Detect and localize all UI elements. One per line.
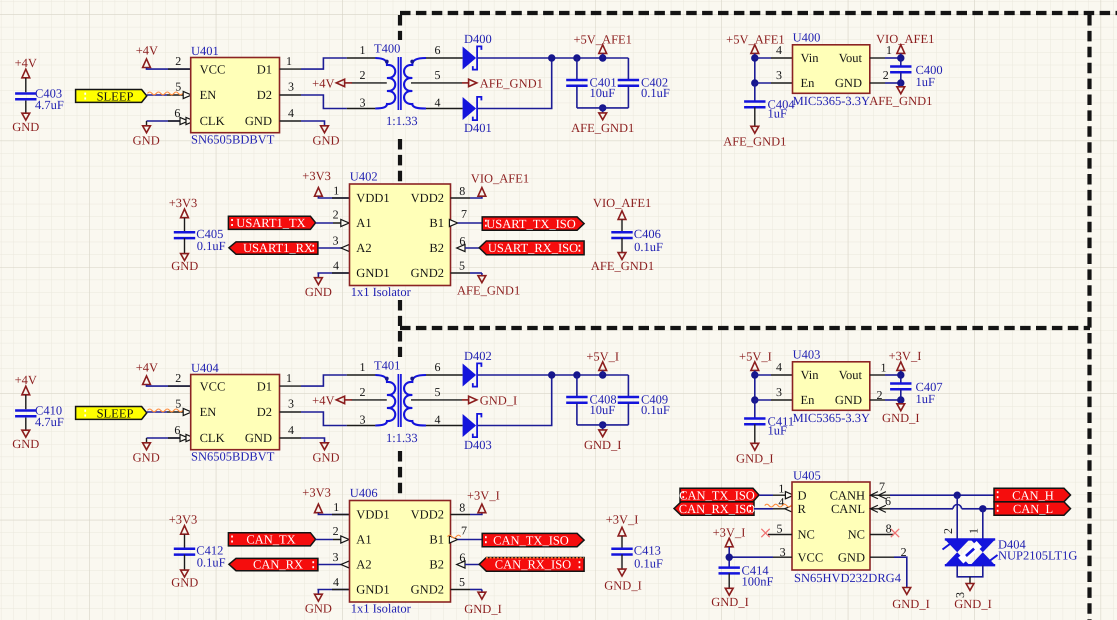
svg-text:1uF: 1uF [768,424,788,438]
svg-text:VIO_AFE1: VIO_AFE1 [471,171,529,185]
svg-text:A2: A2 [356,558,371,572]
svg-text:U402: U402 [350,169,378,183]
junction dots rail [548,371,555,378]
port CAN_TX_ISO [482,533,584,546]
svg-text:4: 4 [435,96,441,110]
wire D404 common to GND_I [957,565,983,577]
svg-text:GND: GND [838,550,865,564]
svg-text:8: 8 [459,184,465,198]
ERC orange mark on CAN_RX_ISO port [486,557,584,559]
svg-text:4: 4 [776,360,782,374]
svg-text:1x1 Isolator: 1x1 Isolator [351,285,412,299]
svg-text:GND: GND [835,76,862,90]
svg-text:2: 2 [883,68,889,82]
svg-text:GND_I: GND_I [711,595,749,609]
ground GND (U401 CLK) [147,120,191,122]
pin B1 arrow and wire to USART_TX_ISO [449,219,457,226]
svg-text:1: 1 [333,183,339,197]
svg-text:NC: NC [798,528,815,542]
svg-text:GND: GND [171,259,198,273]
wire SLEEP to U404 EN [147,411,167,413]
capacitor C400 [900,58,902,67]
power +3V_I (U406 VDD2 pin 8) [451,514,471,516]
wire USART1_RX to A2 [318,247,341,249]
IC U401 body [191,58,280,133]
svg-text:MIC5365-3.3Y: MIC5365-3.3Y [793,94,870,108]
svg-text:GND: GND [12,437,39,451]
ground GND (U401 pin4) [280,120,302,122]
T401 pin stubs [347,374,376,376]
wire CANL pin 6 to CAN_L [870,508,890,510]
wire Vin pin 4 [755,57,771,59]
svg-text:MIC5365-3.3Y: MIC5365-3.3Y [793,411,870,425]
svg-text:GND_I: GND_I [584,438,622,452]
svg-text:1: 1 [360,360,366,374]
svg-text:GND2: GND2 [411,583,444,597]
svg-text:D400: D400 [464,32,492,46]
pin EN input arrow [183,91,191,98]
svg-text:SN6505BDBVT: SN6505BDBVT [191,132,275,146]
SECTION-ROW4 [169,485,663,616]
svg-text:T401: T401 [374,358,400,372]
pin EN input arrow [183,408,191,415]
svg-text:0.1uF: 0.1uF [197,239,226,253]
svg-text:A1: A1 [356,533,371,547]
svg-text:USART1_TX: USART1_TX [236,216,305,230]
ground GND symbol (left rail) [22,113,30,120]
svg-text:CAN_TX_ISO: CAN_TX_ISO [679,488,755,502]
svg-text:B2: B2 [429,558,444,572]
svg-text:3: 3 [333,550,339,564]
svg-text:2: 2 [360,385,366,399]
svg-text:VCC: VCC [200,379,226,393]
svg-text:GND: GND [12,120,39,134]
wire Vout pin 1 [870,374,885,376]
ground GND (U404 CLK) [147,437,191,439]
ground GND_I symbol (U405 pin2) [903,588,911,595]
svg-text:1: 1 [967,528,981,534]
wire U401 D1 to T400 pin1 [280,68,302,70]
svg-text:5: 5 [435,385,441,399]
ground GND (U404 pin4) [280,437,302,439]
ground AFE_GND1 symbol (C404) [751,126,759,133]
svg-text:En: En [801,393,816,407]
svg-text:GND: GND [171,576,198,590]
svg-text:VDD2: VDD2 [411,191,444,205]
svg-text:+3V3: +3V3 [302,169,331,183]
wire D402 cathode to +5V_I rail [478,374,628,376]
junction dot CANH [954,492,961,499]
isolator U402 body [350,184,451,286]
svg-text:VDD2: VDD2 [411,508,444,522]
regulator U400 body [793,45,870,94]
svg-text:2: 2 [175,54,181,68]
pin CLK clock arrows [180,117,188,124]
svg-text:D403: D403 [464,438,492,452]
svg-text:NC: NC [848,528,865,542]
svg-text:1: 1 [881,360,887,374]
svg-text:CAN_TX_ISO: CAN_TX_ISO [493,533,569,547]
junction dots rail [548,54,555,61]
svg-text:VDD1: VDD1 [356,508,389,522]
svg-text:SLEEP: SLEEP [97,406,134,420]
svg-text:Vin: Vin [801,51,820,65]
svg-text:B1: B1 [429,533,444,547]
svg-text:A1: A1 [356,216,371,230]
svg-text:4: 4 [333,258,339,272]
ground AFE_GND1 symbol (rail) [602,108,604,113]
svg-text:CANL: CANL [831,502,865,516]
svg-text:AFE_GND1: AFE_GND1 [869,94,932,108]
svg-text:AFE_GND1: AFE_GND1 [457,283,520,297]
dashed partition border vertical x400 segment b [398,139,402,182]
svg-text:AFE_GND1: AFE_GND1 [723,135,786,149]
svg-text:+3V_I: +3V_I [606,512,639,526]
svg-text:+3V_I: +3V_I [467,488,500,502]
ground AFE_GND1 (U402 GND2 pin 5) [451,272,471,274]
wire D403 cathode up to rail [478,375,552,426]
svg-text:GND: GND [312,133,339,147]
capacitor C407 [900,375,902,384]
svg-text:D2: D2 [257,88,272,102]
wire D401 cathode up to rail [478,58,552,109]
svg-text:CAN_H: CAN_H [1012,488,1054,502]
svg-text:0.1uF: 0.1uF [641,403,670,417]
svg-text:D: D [798,488,807,502]
ground GND_I symbol (C407) [900,400,902,404]
pin B2 arrow and wire from USART_RX_ISO [457,244,465,251]
svg-text:+4V: +4V [136,43,158,57]
pin B2 arrow and wire from CAN_RX_ISO [457,561,465,568]
wire GND pin 2 [870,399,885,401]
svg-text:GND_I: GND_I [604,579,642,593]
wire +4V to C410 [25,395,27,401]
wire CAN_RX_ISO to R pin 4 [754,508,773,510]
svg-text:GND1: GND1 [356,583,389,597]
svg-text:+3V3: +3V3 [169,196,198,210]
svg-text:5: 5 [435,68,441,82]
svg-text:5: 5 [175,397,181,411]
ground GND symbol (left rail 2) [181,570,189,577]
junction dot VCC [726,554,733,561]
svg-text:D401: D401 [464,121,492,135]
capacitor C401 [576,58,578,80]
ground GND_I symbol (C414) [725,588,733,595]
svg-text:NUP2105LT1G: NUP2105LT1G [998,549,1077,563]
port USART1_TX [228,216,315,229]
svg-text:+4V: +4V [312,76,334,90]
svg-text:4.7uF: 4.7uF [35,98,64,112]
wire CANH down to D404 [956,495,958,539]
svg-text:+3V3: +3V3 [302,485,331,499]
svg-text:6: 6 [174,423,180,437]
svg-text:3: 3 [780,545,786,559]
SECTION-BORDERS [400,13,1117,620]
svg-text:4: 4 [333,575,339,589]
svg-text:D402: D402 [464,349,492,363]
pin NC 8 with no-connect cross [870,534,894,536]
svg-text:Vout: Vout [839,51,863,65]
wire GND pin 2 to GND_I [870,556,894,558]
wire CANH pin 7 to CAN_H [870,494,890,496]
svg-text:AFE_GND1: AFE_GND1 [480,76,543,90]
svg-text:4: 4 [288,423,294,437]
port USART_RX_ISO [479,241,584,255]
wire CAN_RX to A2 [318,564,341,566]
svg-text:3: 3 [333,234,339,248]
svg-text:2: 2 [941,528,955,534]
wire En pin 3 [755,82,771,84]
svg-text:3: 3 [288,397,294,411]
svg-text:CAN_RX_ISO: CAN_RX_ISO [679,502,755,516]
svg-text:3: 3 [776,385,782,399]
pin CLK clock arrows [180,434,188,441]
svg-text:4: 4 [435,413,441,427]
svg-text:5: 5 [459,575,465,589]
svg-text:7: 7 [879,479,885,493]
svg-text:GND: GND [245,114,272,128]
svg-text:10uF: 10uF [590,86,616,100]
svg-text:U405: U405 [793,469,821,483]
dashed partition border mid horizontal [400,326,1090,330]
svg-text:+4V: +4V [312,393,334,407]
svg-text:CLK: CLK [200,114,225,128]
svg-text:1: 1 [286,371,292,385]
port USART_TX_ISO [482,217,584,230]
svg-text:1: 1 [333,500,339,514]
port SLEEP [76,90,147,103]
ERC squiggle on R wire [765,504,796,507]
svg-text:D1: D1 [257,62,272,76]
dashed partition border top horizontal [400,11,1117,15]
svg-text:AFE_GND1: AFE_GND1 [571,121,634,135]
svg-text:7: 7 [461,524,467,538]
port CAN_RX_ISO (U405 side) [674,502,754,515]
capacitor C412 [184,534,186,547]
wire Vin pin 4 [755,374,771,376]
wire U404 D1 to T401 pin1 [280,385,302,387]
svg-text:CAN_RX: CAN_RX [253,558,303,572]
capacitor C404 [754,83,756,102]
svg-text:1:1.33: 1:1.33 [386,431,418,445]
svg-text:2: 2 [333,524,339,538]
power +3V_I symbol (right rail 2) [618,527,626,536]
ground GND symbol (left rail 2) [181,254,189,261]
wire Vout pin 1 [870,57,885,59]
wire CAN_TX_ISO to D pin 1 [759,494,773,496]
svg-text:7: 7 [461,207,467,221]
svg-text:CAN_RX_ISO: CAN_RX_ISO [495,558,571,572]
svg-text:1: 1 [286,54,292,68]
wire En pin 3 [755,399,771,401]
svg-text:GND_I: GND_I [480,393,518,407]
svg-text:1x1 Isolator: 1x1 Isolator [351,602,412,616]
wire CANL down to D404 [982,509,984,540]
pin B1 arrow and wire to CAN_TX_ISO [449,536,457,543]
junction dot CANL [979,505,986,512]
capacitor C403 [15,94,36,100]
SECTION-U405 [448,469,1078,612]
SECTION-ROW2 [169,169,663,299]
ground GND (U406 GND1 pin 4) [317,589,349,591]
power +4V symbol (left rail) [22,69,30,78]
svg-text:8: 8 [459,500,465,514]
ERC squiggle on EN wire [148,92,183,95]
dashed partition border right vertical x1090 [1087,15,1091,620]
ground GND_I (U406 GND2 pin 5) [451,589,471,591]
capacitor C405 [184,218,186,231]
capacitor C402 [627,58,629,80]
dashed partition border vertical x400 segment e [398,451,402,498]
svg-text:VDD1: VDD1 [356,191,389,205]
svg-text:U404: U404 [191,361,220,375]
port CAN_L [994,502,1071,515]
ERC squiggle on EN wire [148,409,183,412]
svg-text:2: 2 [175,371,181,385]
svg-text:R: R [798,502,807,516]
SECTION-ROW3 [12,347,942,465]
svg-text:1: 1 [360,43,366,57]
wire GND pin 2 [870,82,885,84]
wire +4V to VCC pin 2 [147,385,191,386]
svg-text:Vin: Vin [801,368,820,382]
svg-text:CLK: CLK [200,431,225,445]
svg-text:GND: GND [312,450,339,464]
svg-text:2: 2 [901,545,907,559]
wire +3V3 to VDD1 pin 1 [318,513,349,515]
svg-text:0.1uF: 0.1uF [634,240,663,254]
svg-text:SN65HVD232DRG4: SN65HVD232DRG4 [794,571,902,585]
svg-text:SN6505BDBVT: SN6505BDBVT [191,449,275,463]
junction dots U400 input [751,54,758,61]
dashed partition border vertical x400 segment c [398,300,402,326]
junction dots U400 output [897,54,904,61]
wire bottom rail C408-C409 [577,424,629,426]
svg-text:0.1uF: 0.1uF [197,556,226,570]
isolator U406 body [350,501,451,603]
svg-text:C413: C413 [634,543,661,557]
svg-text:AFE_GND1: AFE_GND1 [591,259,654,273]
svg-text:GND_I: GND_I [954,597,992,611]
capacitor C410 [15,411,36,417]
svg-text:1:1.33: 1:1.33 [386,114,418,128]
transceiver U405 body [792,482,870,570]
port CAN_TX_ISO (U405 side) [680,488,759,501]
svg-text:6: 6 [885,494,891,508]
wire +4V to C403 [25,78,27,84]
svg-text:CAN_L: CAN_L [1013,502,1053,516]
svg-text:USART1_RX: USART1_RX [243,241,313,255]
svg-text:U403: U403 [793,347,821,361]
svg-text:Vout: Vout [839,368,863,382]
capacitor C413 [621,536,623,547]
svg-text:GND_I: GND_I [892,597,930,611]
wire +3V3 to VDD1 pin 1 [318,196,349,198]
svg-text:5: 5 [777,521,783,535]
svg-text:4: 4 [776,43,782,57]
port CAN_TX [228,533,315,546]
wire bottom rail C401-C402 [577,107,629,109]
port USART1_RX [229,242,318,254]
svg-text:1: 1 [778,481,784,495]
svg-text:0.1uF: 0.1uF [634,556,663,570]
wire U404 D2 to T401 pin3 [280,411,302,413]
diode D403 [463,414,477,437]
svg-text:GND1: GND1 [356,266,389,280]
svg-text:+3V3: +3V3 [169,512,198,526]
svg-text:En: En [801,76,816,90]
ERC squiggle on U406 B1 wire [448,535,461,538]
T400 pin stubs [347,57,376,59]
svg-text:3: 3 [288,80,294,94]
svg-text:1uF: 1uF [916,75,936,89]
svg-text:GND: GND [133,133,160,147]
svg-text:B1: B1 [429,216,444,230]
ground GND (U402 GND1 pin 4) [317,272,349,274]
svg-text:VIO_AFE1: VIO_AFE1 [593,196,651,210]
port CAN_H [994,488,1071,501]
port CAN_RX_ISO [479,558,584,572]
svg-text:T400: T400 [374,41,400,55]
capacitor C411 [754,400,756,419]
svg-text:U401: U401 [191,44,219,58]
capacitor C406 [621,220,623,231]
svg-text:3: 3 [360,413,366,427]
svg-text:U400: U400 [793,30,821,44]
ground AFE_GND1 symbol (right rail 2) [618,253,626,260]
power +4V symbol (left rail) [22,386,30,395]
capacitor C409 [627,375,629,397]
power +3V3 symbol (left rail 2) [181,526,189,535]
svg-text:D2: D2 [257,405,272,419]
SECTION-ROW1 [12,30,942,148]
IC U404 body [191,375,280,450]
svg-text:VIO_AFE1: VIO_AFE1 [876,32,934,46]
net label AFE_GND1 (T400 pin5) [462,82,469,84]
svg-text:2: 2 [333,208,339,222]
svg-text:D1: D1 [257,379,272,393]
TVS diode D404 [943,539,998,565]
svg-text:C406: C406 [634,227,661,241]
svg-text:3: 3 [776,68,782,82]
svg-text:5: 5 [459,258,465,272]
svg-text:GND: GND [133,450,160,464]
svg-text:6: 6 [435,43,441,57]
dashed partition border vertical x400 segment a [398,15,402,40]
ground GND_I symbol (right rail 2) [618,569,626,576]
svg-text:+3V_I: +3V_I [889,349,922,363]
svg-text:EN: EN [200,88,217,102]
svg-text:CANH: CANH [830,488,865,502]
svg-text:2: 2 [877,388,883,402]
svg-text:VCC: VCC [798,550,824,564]
svg-text:GND: GND [835,393,862,407]
svg-text:3: 3 [360,96,366,110]
svg-text:0.1uF: 0.1uF [641,86,670,100]
svg-text:4.7uF: 4.7uF [35,415,64,429]
capacitor C414 [719,568,740,574]
svg-text:CAN_TX: CAN_TX [246,533,295,547]
power VIO_AFE1 symbol (right rail 2) [618,211,626,220]
wire CAN_TX to A1 [316,539,333,541]
capacitor C408 [576,375,578,397]
regulator U403 body [793,362,870,411]
wire +4V to VCC pin 2 [147,68,191,69]
ground AFE_GND1 symbol (C400) [900,83,902,87]
svg-text:100nF: 100nF [742,575,774,589]
svg-text:GND_I: GND_I [464,602,502,616]
svg-text:B2: B2 [429,241,444,255]
